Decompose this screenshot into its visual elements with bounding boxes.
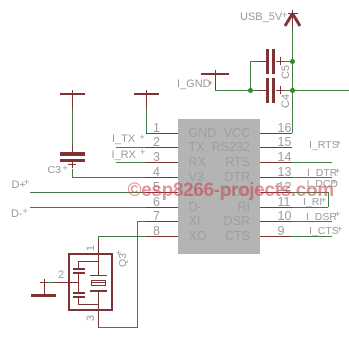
label USB_5V cross [282, 11, 287, 20]
pin name VCC (pin 16) [195, 127, 250, 140]
label Q3 (rotated) [117, 250, 129, 270]
pin number 16 [278, 122, 292, 135]
pin name DCD (pin 12) [195, 186, 250, 199]
wire C3 bottom to pin 4 [72, 169, 73, 178]
label I_CTS cross [337, 225, 342, 234]
label I_DTR [307, 168, 337, 179]
junction dot C5 right [290, 59, 295, 64]
wire pin 7 (XI) elbow [137, 221, 147, 222]
pin name D- (pin 6) [189, 201, 202, 214]
pin 16 stub [260, 133, 293, 134]
pin 15 stub [260, 147, 293, 148]
pin name RI (pin 11) [195, 201, 250, 214]
label C4 (rotated) [280, 93, 292, 109]
pin name RX (pin 3) [189, 156, 206, 169]
pin name RS232 (pin 15) [195, 141, 250, 154]
pin number 1 [146, 122, 160, 135]
pin name CTS (pin 9) [195, 230, 250, 243]
C4 polarity mark [280, 86, 281, 94]
watermark [128, 180, 334, 202]
wire pin 8 (XO) to crystal pin 1 [98, 236, 146, 237]
crystal pin 2 number [58, 269, 64, 282]
ground symbol [44, 282, 45, 294]
wire USB_5V down to pin 16 [292, 28, 293, 133]
crystal pin 2 stub [52, 282, 78, 283]
crystal pin 3 number [85, 312, 97, 324]
supply symbol bar (left, above C3) [60, 93, 85, 95]
wire pin12-pin11 vertical [328, 192, 329, 207]
label I_DCD cross [332, 178, 337, 187]
wire D+ to pin 5 [30, 192, 146, 193]
pin 4 stub [146, 177, 178, 178]
pin number 7 [146, 210, 160, 223]
crystal Q3 body [68, 253, 113, 311]
pin 8 stub [146, 236, 178, 237]
crystal element vertical [98, 253, 99, 275]
pin number 6 [146, 196, 160, 209]
IC U1 CH340G body [178, 119, 260, 254]
crystal internal connectors [78, 261, 98, 262]
pin number 11 [278, 196, 291, 209]
pin 12 stub [260, 192, 293, 193]
label I_RTS cross [336, 139, 341, 148]
label D- cross [23, 207, 28, 216]
wire I_TX to pin 2 [116, 147, 146, 148]
label I_TX [112, 134, 135, 145]
pin name XI (pin 7) [189, 215, 201, 228]
pin 3 stub [146, 162, 178, 163]
crystal internal top cap [73, 268, 85, 270]
pin 10 stub [260, 221, 293, 222]
pin 1 stub [146, 133, 178, 134]
wire supply to pin 1 [146, 109, 147, 133]
crystal element box [91, 280, 107, 286]
pin number 10 [278, 210, 292, 223]
label C5 (rotated) [280, 64, 292, 80]
wire pin 12 [292, 192, 328, 193]
pin 6 stub [146, 207, 178, 208]
wire I_RX to pin 3 [116, 162, 147, 163]
ground junction cross [40, 282, 48, 283]
crystal pin 1 stub [98, 239, 99, 253]
pin name V3 (pin 4) [189, 171, 204, 184]
pin 11 stub [260, 207, 293, 208]
supply symbol I_GND [201, 73, 229, 75]
label I_RI cross [321, 196, 326, 205]
wire I_GND to caps [215, 90, 251, 91]
label I_DSR cross [335, 210, 340, 219]
label I_RTS [309, 140, 339, 151]
pin number 5 [146, 181, 160, 194]
pin number 15 [278, 136, 292, 149]
junction dot C4 right [290, 88, 295, 93]
pin name RTS (pin 14) [195, 156, 250, 169]
pin 9 stub [260, 236, 293, 237]
pin name D+ (pin 5) [189, 186, 205, 199]
capacitor C3 [60, 152, 85, 155]
label I_CTS [309, 226, 339, 237]
label I_RX [112, 150, 136, 161]
wire pin 9 [292, 236, 332, 237]
label USB_5V [240, 12, 282, 23]
pin 13 stub [260, 177, 293, 178]
crystal element plates [90, 275, 107, 277]
crystal pin 3 stub [98, 311, 99, 328]
pin number 2 [146, 136, 160, 149]
crystal pin 1 number [85, 242, 97, 254]
wire pin 10 [292, 221, 332, 222]
crystal internal left branch [78, 261, 79, 269]
label I_GND [177, 79, 211, 90]
label I_DSR [306, 212, 337, 223]
capacitor C5 [250, 61, 258, 62]
pin name DTR (pin 13) [195, 171, 250, 184]
label D- [11, 209, 23, 220]
pin name GND (pin 1) [189, 127, 217, 140]
C5 polarity mark [280, 57, 281, 65]
pin 7 stub [146, 221, 178, 222]
pin number 9 [278, 225, 285, 238]
pin number 3 [146, 151, 160, 164]
supply arrow USB_5V [292, 10, 293, 28]
label I_DCD [307, 179, 339, 190]
pin number 8 [146, 225, 160, 238]
wire pin 11 [292, 207, 328, 208]
label I_RI [303, 197, 322, 208]
wire pin 13 [292, 177, 332, 178]
wire crystal pin 2 to ground [44, 282, 53, 283]
pin name TX (pin 2) [189, 141, 205, 154]
pin name XO (pin 8) [189, 230, 207, 243]
C3 polarity mark [68, 164, 76, 165]
label I_TX cross [140, 133, 145, 142]
pin number 14 [278, 151, 292, 164]
pin number 4 [146, 166, 160, 179]
wire pin 14 [292, 162, 332, 163]
pin name DSR (pin 10) [195, 215, 250, 228]
capacitor C4 [250, 90, 258, 91]
label C3 cross [63, 164, 68, 173]
pin number 12 [278, 181, 292, 194]
label D+ cross [24, 178, 29, 187]
label D+ [12, 180, 26, 191]
wire supply to C3 top [72, 109, 73, 145]
wire caps to right edge [292, 90, 349, 91]
crystal internal bottom cap [73, 292, 85, 294]
label I_DTR cross [335, 167, 340, 176]
junction dot left [248, 88, 253, 93]
wire left elbow of caps [250, 61, 251, 91]
supply symbol bar (above pin 1) [134, 93, 159, 95]
wire D- to pin 6 [30, 207, 146, 208]
label I_RX cross [140, 148, 145, 157]
pin 14 stub [260, 162, 293, 163]
pin 2 stub [146, 147, 178, 148]
pin number 13 [278, 166, 292, 179]
label Q3 cross [116, 249, 121, 258]
label I_GND cross [208, 79, 213, 88]
label C3 [48, 165, 61, 176]
pin 5 stub [146, 192, 178, 193]
